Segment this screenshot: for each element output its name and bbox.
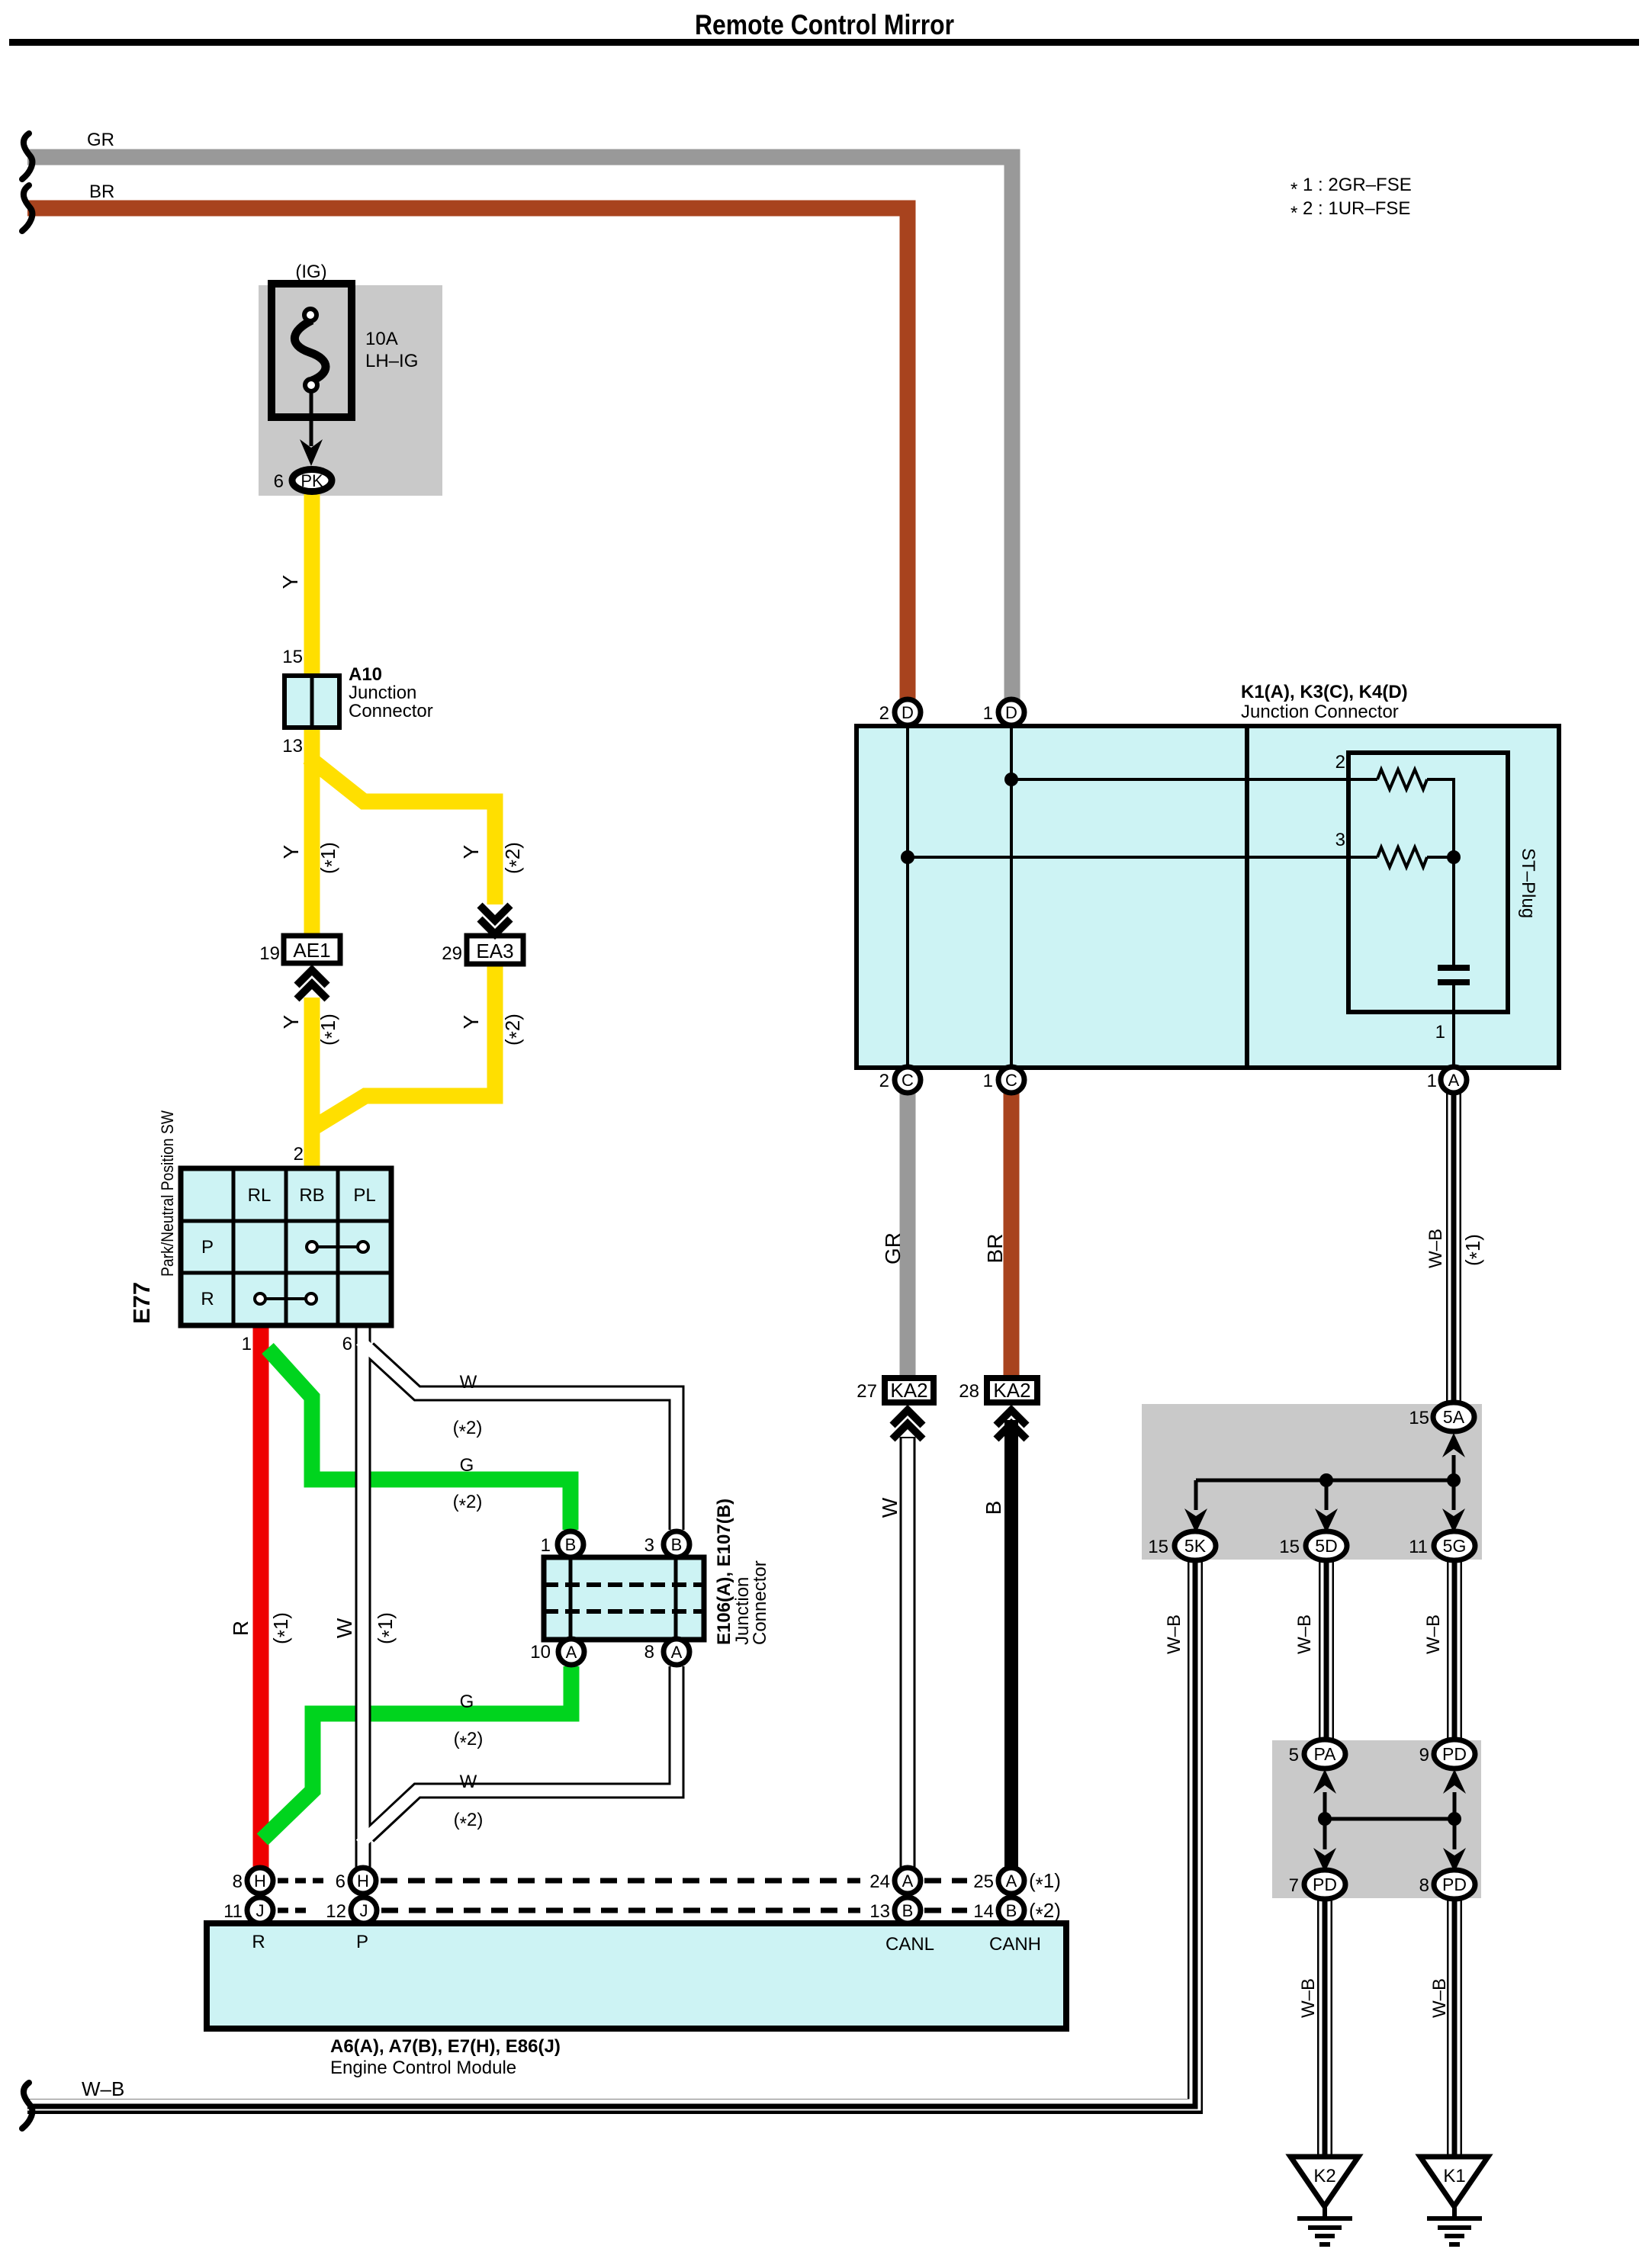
svg-text:G: G <box>460 1455 474 1476</box>
svg-text:BR: BR <box>983 1234 1007 1264</box>
svg-text:(*2): (*2) <box>1029 1899 1061 1926</box>
svg-text:A: A <box>671 1643 683 1662</box>
svg-text:R: R <box>229 1621 252 1636</box>
svg-text:W–B: W–B <box>1294 1614 1315 1654</box>
svg-text:5A: 5A <box>1443 1407 1465 1427</box>
svg-text:W: W <box>460 1372 477 1393</box>
svg-text:J: J <box>360 1901 368 1920</box>
svg-text:8: 8 <box>1419 1875 1429 1896</box>
svg-text:3: 3 <box>644 1535 654 1556</box>
svg-text:(*1): (*1) <box>1029 1869 1061 1896</box>
svg-text:EA3: EA3 <box>476 940 513 962</box>
svg-text:E77: E77 <box>128 1282 155 1324</box>
svg-text:Y: Y <box>279 1014 303 1029</box>
svg-text:CANH: CANH <box>989 1934 1041 1955</box>
svg-text:Engine Control Module: Engine Control Module <box>330 2058 516 2078</box>
svg-text:GR: GR <box>87 130 114 150</box>
svg-text:GR: GR <box>881 1232 905 1264</box>
svg-text:PD: PD <box>1442 1744 1467 1764</box>
svg-text:W–B: W–B <box>1298 1978 1319 2018</box>
svg-text:PA: PA <box>1314 1744 1337 1764</box>
svg-text:8: 8 <box>644 1642 654 1663</box>
svg-text:A10: A10 <box>349 664 382 685</box>
svg-text:B: B <box>1006 1901 1017 1920</box>
svg-text:6: 6 <box>336 1871 346 1892</box>
svg-text:(*1): (*1) <box>374 1612 400 1644</box>
svg-text:5: 5 <box>1289 1745 1299 1765</box>
svg-text:R: R <box>201 1289 214 1309</box>
svg-text:W–B: W–B <box>1423 1614 1444 1654</box>
svg-text:KA2: KA2 <box>993 1379 1030 1402</box>
svg-text:(*1): (*1) <box>317 1014 343 1046</box>
svg-text:Junction Connector: Junction Connector <box>1241 702 1399 722</box>
svg-text:10A: 10A <box>365 329 398 349</box>
svg-text:W–B: W–B <box>1164 1614 1184 1654</box>
svg-text:PK: PK <box>301 471 323 490</box>
svg-text:Park/Neutral Position SW: Park/Neutral Position SW <box>158 1110 177 1277</box>
svg-text:Connector: Connector <box>750 1560 770 1645</box>
svg-text:Junction: Junction <box>349 683 416 703</box>
svg-text:13: 13 <box>282 736 303 757</box>
svg-text:W: W <box>878 1497 902 1518</box>
svg-text:RB: RB <box>299 1185 324 1206</box>
svg-text:AE1: AE1 <box>293 939 330 962</box>
svg-text:(*1): (*1) <box>269 1612 296 1644</box>
svg-text:Y: Y <box>459 1014 483 1029</box>
svg-text:KA2: KA2 <box>890 1379 927 1402</box>
svg-text:11: 11 <box>1409 1537 1428 1557</box>
svg-text:Remote Control Mirror: Remote Control Mirror <box>695 8 954 40</box>
svg-text:A: A <box>566 1643 577 1662</box>
svg-text:W–B: W–B <box>82 2077 124 2100</box>
svg-text:W: W <box>460 1772 477 1792</box>
svg-text:K1(A), K3(C), K4(D): K1(A), K3(C), K4(D) <box>1241 682 1408 702</box>
svg-text:1: 1 <box>242 1334 252 1354</box>
svg-text:29: 29 <box>442 943 462 964</box>
svg-text:C: C <box>1005 1071 1017 1090</box>
svg-text:(*2): (*2) <box>501 842 528 874</box>
svg-text:J: J <box>256 1901 265 1920</box>
svg-text:2: 2 <box>294 1144 304 1165</box>
svg-text:(*1): (*1) <box>1461 1234 1488 1266</box>
svg-text:P: P <box>201 1237 214 1258</box>
svg-text:27: 27 <box>857 1381 877 1402</box>
svg-text:19: 19 <box>259 943 280 964</box>
svg-text:H: H <box>357 1871 369 1891</box>
svg-text:24: 24 <box>869 1871 890 1892</box>
svg-text:15: 15 <box>282 647 303 667</box>
svg-text:A6(A), A7(B), E7(H), E86(J): A6(A), A7(B), E7(H), E86(J) <box>330 2036 561 2057</box>
svg-text:1: 1 <box>541 1535 551 1556</box>
svg-text:PD: PD <box>1313 1875 1337 1894</box>
svg-text:K2: K2 <box>1313 2166 1335 2186</box>
svg-text:Connector: Connector <box>349 701 433 721</box>
svg-text:E106(A), E107(B): E106(A), E107(B) <box>714 1499 734 1645</box>
svg-text:H: H <box>254 1871 266 1891</box>
svg-text:11: 11 <box>223 1901 243 1922</box>
svg-text:28: 28 <box>959 1381 979 1402</box>
svg-text:A: A <box>1006 1871 1017 1891</box>
svg-text:2: 2 <box>879 1071 889 1091</box>
svg-text:C: C <box>902 1071 914 1090</box>
svg-text:W: W <box>333 1618 356 1638</box>
svg-text:RL: RL <box>248 1185 272 1206</box>
svg-text:13: 13 <box>869 1901 890 1922</box>
svg-text:D: D <box>902 703 914 722</box>
svg-text:5G: 5G <box>1443 1536 1467 1556</box>
svg-text:14: 14 <box>973 1901 994 1922</box>
svg-text:3: 3 <box>1335 830 1345 850</box>
svg-text:8: 8 <box>233 1871 243 1892</box>
svg-text:Y: Y <box>278 574 302 589</box>
svg-text:W–B: W–B <box>1429 1978 1450 2018</box>
svg-text:BR: BR <box>89 182 114 202</box>
svg-text:A: A <box>902 1871 914 1891</box>
svg-text:15: 15 <box>1148 1537 1168 1557</box>
svg-text:P: P <box>356 1932 368 1952</box>
svg-text:(*2): (*2) <box>501 1014 528 1046</box>
svg-text:G: G <box>460 1692 474 1712</box>
svg-text:1: 1 <box>983 1071 993 1091</box>
svg-text:6: 6 <box>342 1334 352 1354</box>
svg-text:B: B <box>982 1501 1005 1515</box>
svg-text:9: 9 <box>1419 1745 1429 1765</box>
svg-text:6: 6 <box>274 471 284 492</box>
svg-text:15: 15 <box>1409 1408 1429 1428</box>
svg-text:W–B: W–B <box>1425 1229 1446 1268</box>
svg-text:1: 1 <box>1427 1071 1437 1091</box>
svg-text:D: D <box>1005 703 1017 722</box>
svg-text:B: B <box>565 1535 577 1554</box>
svg-text:Y: Y <box>279 844 303 859</box>
svg-text:15: 15 <box>1279 1537 1300 1557</box>
svg-text:B: B <box>902 1901 914 1920</box>
svg-text:K1: K1 <box>1443 2166 1465 2186</box>
svg-text:1: 1 <box>1435 1022 1445 1043</box>
svg-text:5K: 5K <box>1184 1536 1207 1556</box>
svg-text:B: B <box>671 1535 683 1554</box>
svg-text:10: 10 <box>530 1642 551 1663</box>
svg-text:5D: 5D <box>1315 1536 1337 1556</box>
svg-text:CANL: CANL <box>885 1934 934 1955</box>
svg-text:2: 2 <box>879 703 889 724</box>
svg-text:A: A <box>1448 1071 1460 1090</box>
svg-text:LH–IG: LH–IG <box>365 351 418 371</box>
svg-text:R: R <box>252 1932 265 1952</box>
svg-text:12: 12 <box>326 1901 346 1922</box>
svg-text:Y: Y <box>459 844 483 859</box>
svg-text:ST–Plug: ST–Plug <box>1518 848 1538 918</box>
svg-text:2: 2 <box>1335 752 1345 773</box>
svg-text:(IG): (IG) <box>295 262 326 282</box>
svg-text:25: 25 <box>973 1871 994 1892</box>
svg-text:(*1): (*1) <box>317 842 343 874</box>
svg-text:7: 7 <box>1289 1875 1299 1896</box>
svg-text:1: 1 <box>983 703 993 724</box>
svg-text:PL: PL <box>353 1185 375 1206</box>
svg-text:PD: PD <box>1442 1875 1467 1894</box>
